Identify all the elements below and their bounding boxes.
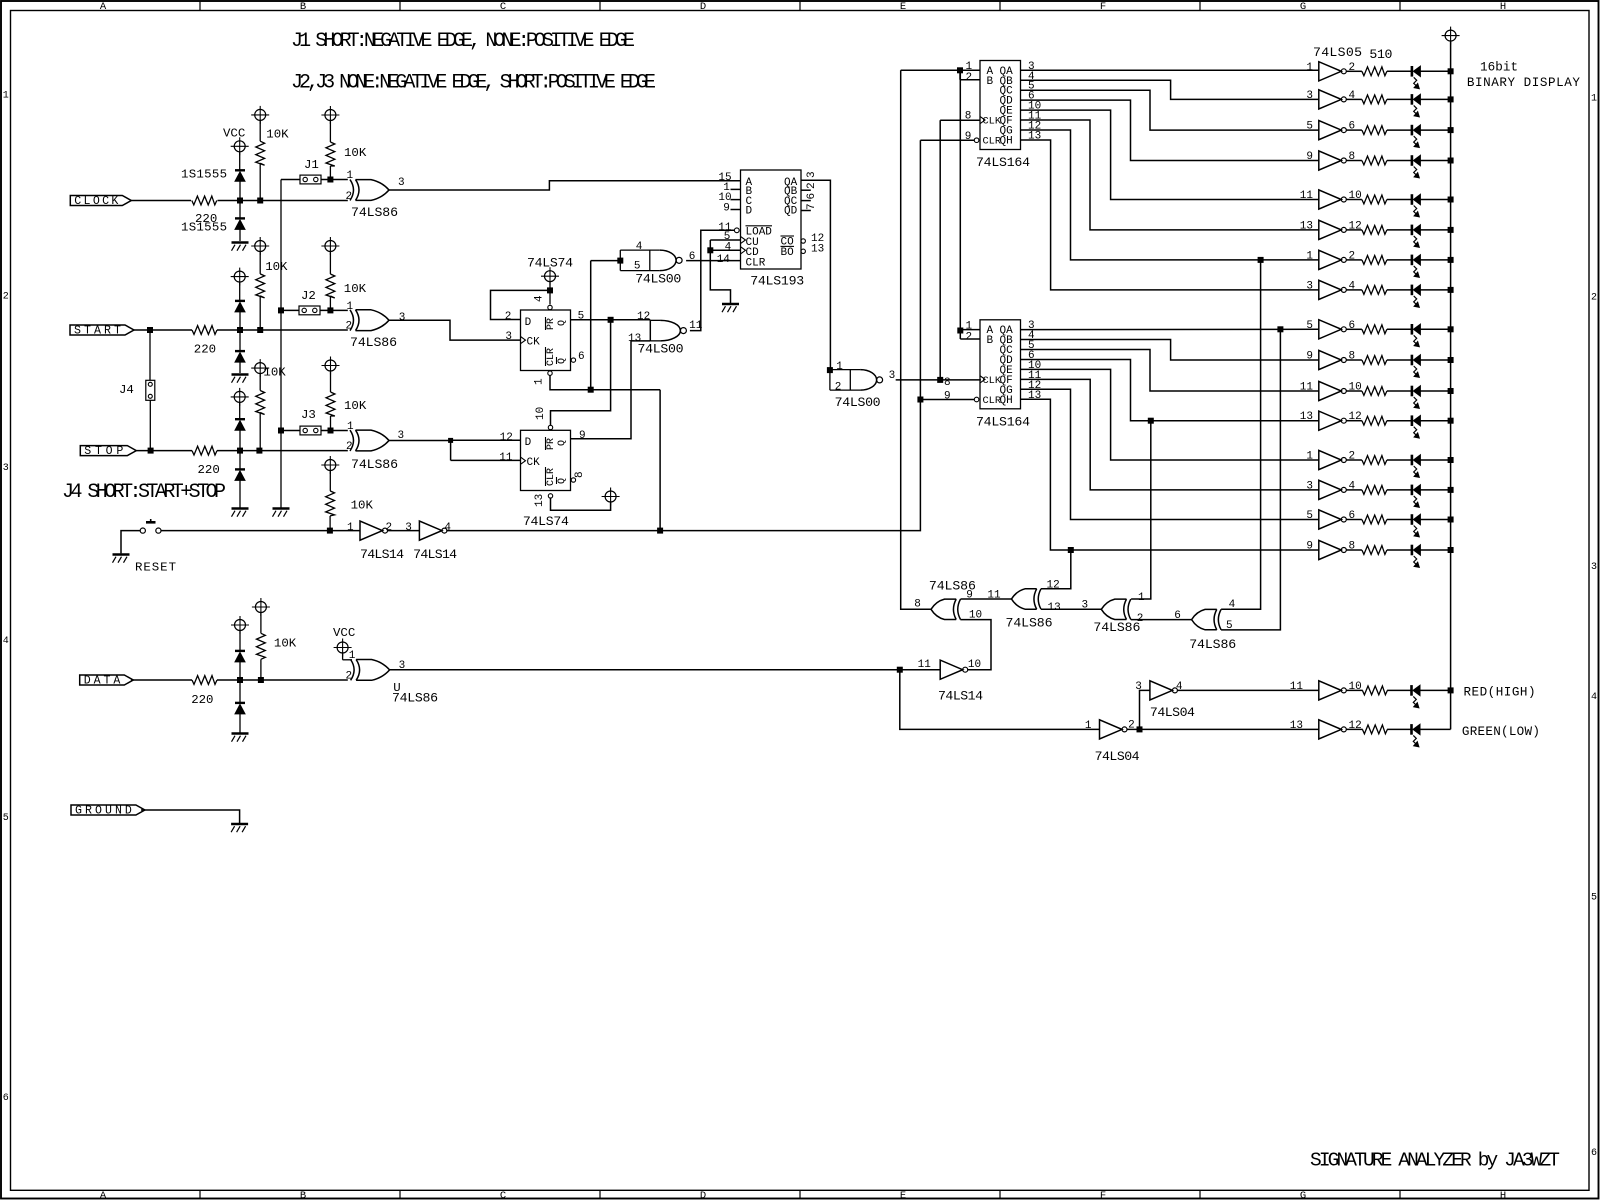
svg-text:9: 9 [944,391,951,403]
svg-text:4: 4 [534,295,546,302]
LED row 15 [1412,514,1421,537]
bubble FF1 Qbar [571,358,575,362]
svg-text:5: 5 [1306,121,1313,133]
svg-text:VCC: VCC [223,127,245,141]
node DATA net branch to 74LS04 [897,667,902,672]
connector CLOCK [70,195,131,208]
node feedback tap row 12 (QD2) [1148,418,1153,423]
svg-text:H: H [1500,1190,1506,1200]
LED row 7 [1412,255,1421,278]
counter 74LS193 U2 [741,170,802,270]
svg-text:74LS86: 74LS86 [1093,620,1140,635]
connector START [70,325,134,338]
wire 164 output to driver row 8 [1021,140,1319,290]
bubble 193 CO [801,239,805,243]
wire 193 QA to NAND3 [801,180,830,370]
svg-text:E: E [900,1190,906,1200]
bubble FF2 PR [548,425,552,429]
node CLOCK/10K junction [258,198,263,203]
resistor 510 row 9 [1362,325,1387,334]
svg-text:CLOCK: CLOCK [74,195,118,208]
node bus red row [1448,688,1453,693]
svg-text:6: 6 [3,1093,9,1104]
grid letters bottom [100,1190,1506,1200]
resistor 510 row 12 [1362,416,1387,425]
connector GROUND [71,805,145,818]
svg-text:74LS86: 74LS86 [1006,616,1053,631]
wire LED to bus row 2 [1420,98,1450,100]
wire button left to ground [121,531,140,554]
svg-text:74LS193: 74LS193 [750,274,804,289]
wire driver to resistor row 2 [1346,98,1362,100]
svg-text:RED(HIGH): RED(HIGH) [1464,686,1536,700]
inverter 74LS05 row 10 [1319,350,1347,369]
svg-text:CK: CK [527,337,541,349]
svg-text:74LS86: 74LS86 [351,457,398,472]
resistor 510 row 4 [1362,156,1387,165]
wire driver to resistor row 6 [1346,229,1362,231]
diode D5 1S1555 (stop upper) [235,419,245,450]
wire LED to bus row 11 [1420,390,1450,392]
svg-text:B: B [300,1190,306,1200]
grid letters top [100,1,1506,13]
power flag (data 10K pull-up) [252,598,270,633]
wire CLOCK to resistor [131,200,191,202]
inverter 74LS05 row 14 [1319,480,1347,499]
wire 164 output to driver row 14 [1021,379,1319,490]
svg-text:J3: J3 [301,408,316,422]
resistor 510 row 8 [1362,286,1387,295]
wire resistor to red LED [1387,689,1411,691]
svg-text:5: 5 [1306,510,1313,522]
wire fb XOR-A output to serial input net [901,70,931,609]
ground (start clamp) [232,373,249,376]
resistor 510 row 10 [1362,356,1387,365]
svg-text:F: F [1100,1190,1106,1200]
wire 164 output to driver row 11 [1021,350,1319,392]
svg-text:510: 510 [1369,47,1392,62]
inverter 74LS05 row 13 [1319,450,1347,469]
wire driver to resistor row 3 [1346,129,1362,131]
wire resistor to LED row 15 [1387,519,1412,521]
NAND gate 74LS00 C [830,370,883,391]
wire 164 output to driver row 15 [1021,389,1319,519]
wire FF2 Q to NAND2 pin13 [571,341,651,439]
inverter 74LS14 A (reset) [360,521,388,540]
stub 193 QC [801,200,811,202]
power flag (J2 10K pull-up) [321,237,339,274]
svg-text:12: 12 [1349,720,1362,732]
resistor 510 row 13 [1362,456,1387,465]
svg-text:9: 9 [1306,351,1313,363]
wire LED to bus row 13 [1420,459,1450,461]
wire resistor to LED row 9 [1387,328,1412,330]
node feedback tap row 9 (QA2) [1278,327,1283,332]
wire XOR1 output to 74LS193 pin A [389,181,741,190]
svg-text:220: 220 [194,343,216,357]
wire driver to resistor row 12 [1346,420,1362,422]
wire LED to bus row 3 [1420,129,1450,131]
svg-text:13: 13 [811,244,824,256]
resistor 220 (CLOCK) [192,196,218,226]
svg-text:SIGNATURE ANALYZER by JA3WZT: SIGNATURE ANALYZER by JA3WZT [1310,1150,1560,1172]
node bus row 6 [1448,227,1453,232]
svg-text:12: 12 [1047,580,1060,592]
wire LED to bus row 1 [1420,70,1450,72]
node CLOCK/diode junction [238,198,243,203]
inverter 74LS05 row 7 [1319,250,1347,269]
wire resistor to LED row 11 [1387,390,1412,392]
wire 74LS04b out to red driver [1177,689,1318,691]
svg-text:11: 11 [499,452,513,464]
svg-text:CLR: CLR [983,135,1002,147]
svg-text:74LS14: 74LS14 [938,689,983,704]
wire resistor to LED row 10 [1387,359,1412,361]
ground (GROUND connector) [231,823,248,826]
svg-text:C: C [500,1190,506,1200]
wire LED to bus row 5 [1420,199,1450,201]
inverter 74LS05 row 8 [1319,280,1347,299]
svg-text:PR: PR [546,318,557,330]
node 164B input junction [958,328,963,333]
LED row 2 [1412,94,1421,117]
wire DATA to resistor [131,679,192,681]
wire LED to bus row 8 [1420,289,1450,291]
node bus row 13 [1448,458,1453,463]
svg-text:1: 1 [534,378,546,385]
node bus row 15 [1448,517,1453,522]
LED row 5 [1412,194,1421,217]
LED row 8 [1412,285,1421,308]
wire driver to resistor row 1 [1346,70,1362,72]
node NAND1 tied inputs [618,258,623,263]
svg-text:B: B [987,335,994,347]
resistor 220 (DATA) [191,676,217,707]
resistor 510 row 7 [1362,256,1387,265]
ground (jumper bus) [273,507,290,510]
resistor 10K (data pull-up) [257,633,266,680]
svg-text:1: 1 [1306,62,1313,74]
wire LED to bus row 16 [1420,549,1450,551]
wire shared serial input vertical [959,70,961,330]
svg-text:2: 2 [1591,293,1597,304]
svg-text:3: 3 [398,177,405,189]
svg-text:5: 5 [1226,620,1233,632]
wire 164A CLK [940,119,980,121]
diode D8 1S1555 (data lower) [235,680,245,733]
inverter 74LS05 row 9 [1319,320,1347,339]
LED row 14 [1412,485,1421,508]
svg-text:220: 220 [191,693,213,707]
svg-text:7: 7 [806,203,818,210]
power flag VCC data clamp [231,616,249,651]
wire LED to bus row 15 [1420,519,1450,521]
svg-text:3: 3 [1306,480,1313,492]
svg-text:2: 2 [3,292,9,303]
svg-text:J4: J4 [119,383,134,397]
wire driver to resistor row 7 [1346,259,1362,261]
svg-text:10K: 10K [344,282,367,296]
wire driver to resistor row 16 [1346,549,1362,551]
svg-text:3: 3 [399,312,406,324]
svg-text:10: 10 [535,407,547,420]
svg-text:Q: Q [557,478,568,484]
svg-text:J2,J3 NONE:NEGATIVE EDGE, SHOR: J2,J3 NONE:NEGATIVE EDGE, SHORT:POSITIVE… [291,72,656,95]
resistor 510 row 15 [1362,515,1387,524]
svg-text:2: 2 [505,311,512,323]
node NAND1 input tap [588,387,593,392]
resistor 10K (J1 pull-up) [326,142,335,180]
inverter 74LS05 row 1 [1319,62,1347,81]
wire red driver to resistor [1346,689,1362,691]
node shift clock junction [938,377,943,382]
wire RESET line to shift register CLR net [446,140,920,530]
svg-text:J1: J1 [304,158,319,172]
wire J2 right to XOR2 pin1 [320,309,348,311]
wire J1 left to ground bus [281,179,300,181]
wire driver to resistor row 13 [1346,459,1362,461]
wire FF1 Q branch down to FF2 PR [551,320,611,425]
diode D4 1S1555 (start lower) [235,330,245,373]
node bus row 7 [1448,257,1453,262]
node J3/10K junction [328,428,333,433]
wire driver to resistor row 15 [1346,519,1362,521]
stub 193 C [731,199,741,201]
wire resistor to LED row 3 [1387,129,1412,131]
svg-text:2: 2 [386,522,393,534]
wire LED to bus row 7 [1420,259,1450,261]
svg-text:A: A [100,1,107,13]
svg-text:74LS00: 74LS00 [835,395,881,410]
svg-text:CLR: CLR [983,395,1002,407]
svg-text:74LS86: 74LS86 [1189,637,1236,652]
svg-text:2: 2 [966,72,973,84]
wire resistor to LED row 5 [1387,199,1412,201]
wire resistor to LED row 14 [1387,489,1412,491]
node J2 tap on ground bus [279,308,284,313]
node J3 tap on ground bus [279,428,284,433]
node bus row 1 [1448,69,1453,74]
wire LED to bus row 10 [1420,359,1450,361]
power flag VCC XOR4 pin1 [334,639,352,660]
wire 164 output to driver row 9 [1021,328,1319,330]
svg-text:4: 4 [3,636,9,647]
wire START row to XOR2 pin2 [217,329,348,331]
inverter 74LS05 row 3 [1319,121,1347,140]
wire 74LS04a out to green row [1127,728,1319,730]
svg-text:9: 9 [579,430,586,442]
LED row 3 [1412,125,1421,148]
node feedback tap row 16 (QH2) [1068,548,1073,553]
svg-text:74LS86: 74LS86 [351,205,398,220]
inverter 74LS14 (data) [940,660,968,679]
node FF1-CLR net on RESET line [658,528,663,533]
svg-text:74LS04: 74LS04 [1150,705,1195,720]
wire 164 output to driver row 4 [1021,100,1319,160]
wire shift clock vertical [939,120,941,380]
wire tap row9 to XOR-D pin5 [1221,329,1280,630]
svg-text:74LS14: 74LS14 [360,547,404,562]
node XOR3 output branch [449,438,453,442]
wire 164 output to driver row 6 [1021,120,1319,230]
svg-text:1S1555: 1S1555 [181,168,227,182]
svg-text:Q: Q [557,320,568,326]
diode D2 1S1555 (clock lower) [235,201,245,242]
LED row 11 [1412,386,1421,409]
node STOP/J4 junction [148,448,153,453]
resistor 510 (red) [1362,686,1387,695]
diode D6 1S1555 (stop lower) [235,451,245,508]
svg-text:BINARY DISPLAY: BINARY DISPLAY [1467,76,1580,90]
svg-text:1: 1 [1591,94,1597,105]
svg-text:13: 13 [1290,720,1303,732]
svg-text:2: 2 [835,382,842,394]
node FF1 Q branch to FF2 PR [608,317,613,322]
wire 164 output to driver row 2 [1021,80,1319,99]
wire LED to bus row 12 [1420,420,1450,422]
wire J3 left to ground bus [281,430,300,432]
wire resistor to LED row 8 [1387,289,1412,291]
stub 193 B [731,188,741,190]
resistor 220 (STOP) [192,446,220,477]
LED row 1 [1412,66,1421,89]
svg-text:74LS74: 74LS74 [523,514,569,529]
wire J3 right to XOR3 pin1 [321,430,348,432]
LED row 12 [1412,415,1421,438]
wire CLOCK row to XOR pin2 [218,200,348,202]
resistor 510 row 5 [1362,195,1387,204]
svg-text:3: 3 [1306,280,1313,292]
wire FF2 CLR to power flag [551,498,611,510]
ground (data clamp) [232,732,249,735]
ground (193 CLR net) [722,303,739,306]
wire fb XOR-D out to XOR-C pin2 [1131,619,1192,621]
inverter 74LS05 (red) [1319,681,1347,700]
wire NAND2 output to 193 LOAD [690,230,734,330]
svg-text:5: 5 [1306,320,1313,332]
power flag (reset 10K pull-up) [321,456,339,491]
svg-text:14: 14 [717,254,731,266]
svg-text:12: 12 [637,311,650,323]
wire 164A CLR to reset net [920,139,974,141]
svg-text:74LS14: 74LS14 [413,547,457,562]
label U 74LS86 (data gate) [392,681,438,706]
inverter 74LS05 row 12 [1319,411,1347,430]
wire CU pin [710,239,741,241]
stub 193 QB [801,189,811,191]
svg-text:RESET: RESET [135,561,176,575]
node CD tie [708,248,713,253]
wire LED to bus row 6 [1420,229,1450,231]
svg-text:1: 1 [349,650,356,662]
bubble FF1 PR [548,305,552,309]
wire LED to bus row 14 [1420,489,1450,491]
svg-text:74LS164: 74LS164 [976,155,1030,170]
inverter 74LS04 B [1150,681,1178,700]
wire LED to bus row 4 [1420,160,1450,162]
LED row 4 [1412,155,1421,178]
svg-text:1: 1 [1306,451,1313,463]
svg-text:Q: Q [557,358,568,364]
svg-text:3: 3 [3,463,9,474]
svg-text:GREEN(LOW): GREEN(LOW) [1462,725,1540,739]
svg-text:11: 11 [1300,190,1314,202]
ground bus J1-J2-J3 vertical [280,180,282,508]
inverter 74LS05 row 11 [1319,381,1347,400]
wire 164 output to driver row 10 [1021,340,1319,360]
bubble FF1 CLR [548,371,552,375]
NAND gate 74LS00 A [620,250,682,271]
power flag (J3 10K pull-up) [322,357,340,393]
power flag (clock 10K pull-up) [251,106,269,141]
wire J1 right to XOR pin1 [321,179,348,181]
LED row 6 [1412,225,1421,248]
svg-text:220: 220 [198,463,220,477]
wire resistor to LED row 7 [1387,259,1412,261]
svg-text:4: 4 [1176,681,1183,693]
wire FF1 CLR to reset net [550,375,660,389]
power flag LED bus [1445,30,1456,41]
LED row 10 [1412,355,1421,378]
wire 164B CLR to reset net [920,399,974,401]
svg-text:A: A [100,1190,107,1200]
svg-text:3: 3 [1591,562,1597,573]
node bus row 9 [1448,327,1453,332]
shift register 74LS164 U4 [980,320,1042,409]
node J2/10K junction [328,308,333,313]
node START/10K junction [258,328,263,333]
svg-text:10K: 10K [351,499,374,513]
resistor 220 (START) [192,326,217,357]
svg-text:G: G [1300,1190,1306,1200]
svg-text:11: 11 [1300,382,1314,394]
resistor 510 row 2 [1362,95,1387,104]
wire driver to resistor row 4 [1346,160,1362,162]
resistor 510 row 6 [1362,226,1387,235]
svg-text:J1 SHORT:NEGATIVE EDGE, NONE:P: J1 SHORT:NEGATIVE EDGE, NONE:POSITIVE ED… [291,30,635,53]
svg-text:13: 13 [534,494,546,507]
inverter 74LS05 row 15 [1319,510,1347,529]
inverter 74LS05 row 16 [1319,540,1347,559]
NAND gate 74LS00 B [650,320,686,341]
svg-text:G: G [1300,1,1306,13]
svg-text:D: D [700,1,706,13]
svg-text:74LS86: 74LS86 [350,335,397,350]
power flag VCC start clamp [231,268,249,301]
svg-text:4: 4 [725,242,732,254]
wire resistor to LED row 2 [1387,98,1412,100]
svg-text:VCC: VCC [333,626,355,640]
wire resistor to LED row 1 [1387,70,1412,72]
bubble FF2 Qbar [571,478,575,482]
wire DATA net down to 74LS04 [900,670,1100,730]
resistor 10K (J3 pull-up) [326,392,335,431]
node bus row 4 [1448,158,1453,163]
shift register 74LS164 U3 [980,61,1042,150]
wire 164B input tie [960,330,980,339]
svg-text:1: 1 [1085,720,1092,732]
svg-text:BO: BO [781,247,795,259]
svg-text:CLK: CLK [983,116,1002,128]
node green/red branch [1137,727,1142,732]
inverter 74LS05 row 6 [1319,220,1347,239]
wire RESET line to inverter [161,530,360,532]
node DATA/10K junction [258,678,263,683]
power flag (J1 10K pull-up) [321,106,339,142]
node NAND3 input [827,368,832,373]
wire fb XOR-B out to XOR-A pin9 [961,598,1012,600]
wire driver to resistor row 14 [1346,489,1362,491]
